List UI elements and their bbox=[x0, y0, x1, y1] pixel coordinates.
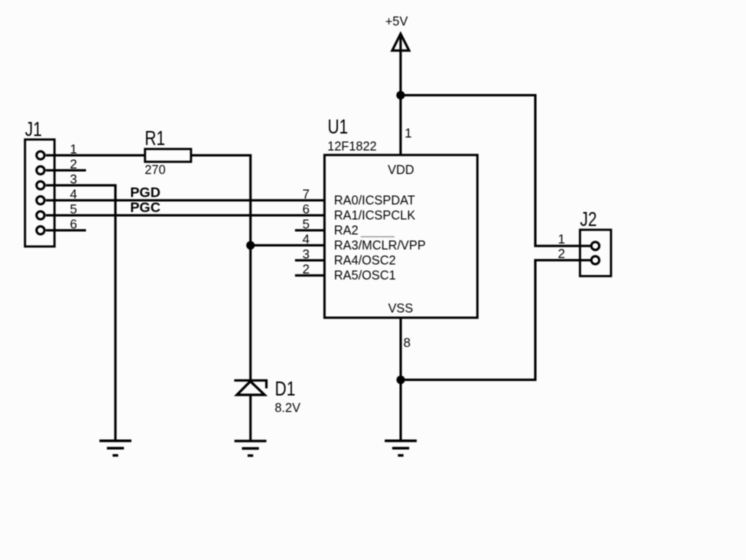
svg-text:R1: R1 bbox=[145, 128, 165, 150]
svg-text:1: 1 bbox=[558, 232, 565, 247]
svg-text:5: 5 bbox=[302, 216, 309, 231]
svg-text:4: 4 bbox=[302, 231, 309, 246]
svg-text:J1: J1 bbox=[25, 118, 42, 140]
svg-text:6: 6 bbox=[70, 217, 77, 232]
svg-text:1: 1 bbox=[70, 142, 77, 157]
svg-text:3: 3 bbox=[70, 172, 77, 187]
svg-text:PGD: PGD bbox=[130, 184, 160, 200]
svg-text:12F1822: 12F1822 bbox=[327, 140, 376, 154]
svg-text:3: 3 bbox=[302, 246, 309, 261]
svg-text:8: 8 bbox=[403, 335, 410, 350]
svg-text:RA1/ICSPCLK: RA1/ICSPCLK bbox=[334, 208, 416, 222]
svg-text:RA4/OSC2: RA4/OSC2 bbox=[334, 253, 396, 267]
svg-text:D1: D1 bbox=[275, 378, 295, 400]
svg-text:2: 2 bbox=[70, 157, 77, 172]
svg-text:1: 1 bbox=[405, 125, 412, 140]
svg-text:7: 7 bbox=[302, 186, 309, 201]
svg-text:VSS: VSS bbox=[388, 301, 413, 315]
svg-text:RA0/ICSPDAT: RA0/ICSPDAT bbox=[334, 193, 415, 207]
svg-text:PGC: PGC bbox=[130, 199, 160, 215]
svg-text:U1: U1 bbox=[328, 116, 348, 138]
svg-text:2: 2 bbox=[302, 261, 309, 276]
svg-text:RA5/OSC1: RA5/OSC1 bbox=[334, 269, 396, 283]
svg-text:270: 270 bbox=[145, 163, 166, 177]
svg-text:5: 5 bbox=[70, 202, 77, 217]
svg-text:6: 6 bbox=[302, 201, 309, 216]
svg-text:VDD: VDD bbox=[388, 163, 414, 177]
svg-text:4: 4 bbox=[70, 187, 77, 202]
svg-text:8.2V: 8.2V bbox=[275, 401, 301, 415]
svg-text:RA2: RA2 bbox=[334, 224, 358, 238]
svg-text:RA3/MCLR/VPP: RA3/MCLR/VPP bbox=[334, 238, 426, 252]
svg-text:2: 2 bbox=[558, 246, 565, 261]
svg-text:+5V: +5V bbox=[385, 14, 408, 28]
svg-text:J2: J2 bbox=[580, 208, 597, 230]
